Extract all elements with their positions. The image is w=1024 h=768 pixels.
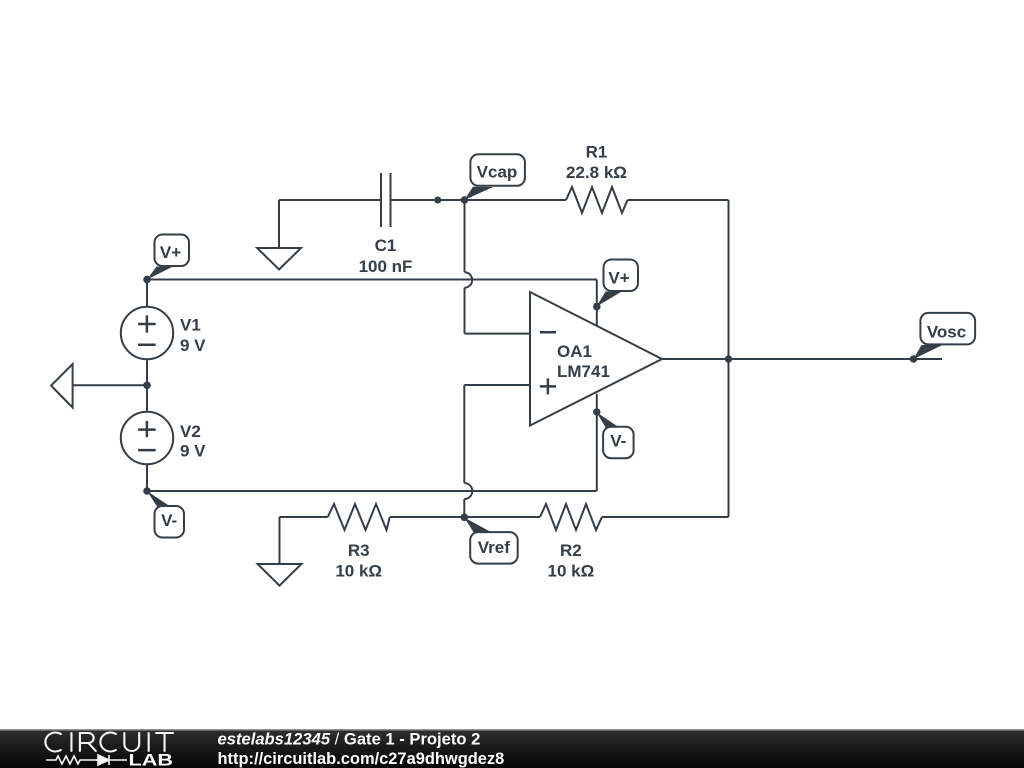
label V+ left: [147, 235, 189, 280]
svg-text:Vref: Vref: [478, 538, 510, 557]
svg-text:C1: C1: [375, 236, 397, 255]
svg-text:100 nF: 100 nF: [359, 257, 413, 276]
wire output: [662, 358, 942, 360]
svg-text:Vcap: Vcap: [477, 163, 518, 182]
wire V2 top lead: [146, 385, 148, 412]
wire V1 bottom lead: [146, 359, 148, 385]
wire top rail left (ground to cap): [279, 199, 381, 201]
label V- left: [147, 491, 184, 538]
label Vosc: [914, 313, 976, 359]
resistor R1: [566, 187, 628, 213]
wire hop over V+ rail: [465, 272, 473, 287]
wire minus input: [465, 333, 531, 335]
node dot V+ left: [143, 276, 151, 284]
resistor R2: [540, 504, 602, 530]
svg-text:LAB: LAB: [129, 750, 174, 768]
wire V2 bottom lead: [146, 464, 148, 491]
logo CIRCUIT text: [45, 733, 173, 752]
svg-text:V-: V-: [610, 432, 626, 451]
wire vref vertical upper: [463, 385, 465, 483]
svg-text:estelabs12345 / Gate 1 - Proje: estelabs12345 / Gate 1 - Projeto 2: [218, 730, 481, 749]
label V+ opamp: [597, 260, 639, 307]
wire V- power pin riser: [596, 394, 598, 491]
wire mid node to left ground arrow: [73, 384, 147, 386]
ground GND1 triangle: [257, 248, 301, 270]
svg-text:V1: V1: [180, 316, 201, 335]
footer bar: [0, 729, 1024, 731]
svg-text:R3: R3: [348, 541, 370, 560]
node dot V+ pin: [593, 303, 601, 311]
node dot output junction: [725, 355, 732, 362]
node dot V- pin: [593, 408, 600, 415]
wire V1 top lead: [146, 280, 148, 307]
label V- opamp: [596, 412, 633, 458]
ground GND2 triangle: [258, 564, 302, 586]
svg-text:Vosc: Vosc: [927, 323, 966, 342]
node dot Vosc: [910, 355, 918, 363]
capacitor C1: [381, 173, 391, 227]
svg-text:V+: V+: [608, 268, 629, 287]
label Vcap: [464, 154, 525, 200]
wire right vertical feedback: [728, 200, 730, 517]
label Vref: [464, 518, 517, 564]
svg-text:R1: R1: [586, 142, 608, 161]
wire R2 right lead: [602, 516, 729, 518]
ground GND1 stem: [278, 200, 280, 248]
wire R1 to right vertical: [628, 199, 729, 201]
svg-text:22.8 kΩ: 22.8 kΩ: [566, 163, 627, 182]
voltage source V1: [121, 307, 173, 359]
wire R3 to Vref: [390, 516, 465, 518]
wire hop over V- rail: [464, 483, 472, 499]
wire V+ power pin: [596, 280, 598, 333]
voltage source V2: [121, 412, 173, 464]
wire Vref to R2: [464, 516, 540, 518]
svg-text:10 kΩ: 10 kΩ: [335, 561, 382, 580]
wire V- rail: [147, 490, 597, 492]
node dot cap-junction: [434, 197, 441, 204]
svg-text:OA1: OA1: [557, 342, 592, 361]
ground GND2 stem under R3: [279, 517, 281, 564]
svg-text:9 V: 9 V: [180, 336, 206, 355]
node dot Vcap: [461, 196, 469, 204]
svg-text:V2: V2: [180, 422, 201, 441]
wire R3 left lead: [280, 516, 328, 518]
node dot Vref: [461, 514, 469, 522]
wire V+ rail: [147, 279, 597, 281]
ground arrow left (node GND): [51, 364, 73, 408]
svg-text:V-: V-: [161, 511, 177, 530]
svg-text:V+: V+: [160, 243, 181, 262]
svg-text:10 kΩ: 10 kΩ: [548, 561, 595, 580]
wire vcap vertical upper: [464, 200, 466, 272]
node dot V- left: [143, 487, 151, 495]
op-amp OA1: [530, 292, 662, 426]
svg-text:http://circuitlab.com/c27a9dhw: http://circuitlab.com/c27a9dhwgdez8: [218, 750, 505, 768]
logo resistor-diode glyph: [46, 755, 127, 765]
node dot mid supply: [143, 382, 151, 390]
svg-text:LM741: LM741: [557, 362, 610, 381]
wire vref vertical lower: [463, 499, 465, 517]
wire plus input: [464, 384, 530, 386]
wire vcap vertical lower to minus input: [464, 288, 466, 334]
svg-text:R2: R2: [560, 541, 582, 560]
svg-text:9 V: 9 V: [180, 442, 206, 461]
resistor R3: [328, 504, 390, 530]
wire cap to R1: [391, 199, 567, 201]
